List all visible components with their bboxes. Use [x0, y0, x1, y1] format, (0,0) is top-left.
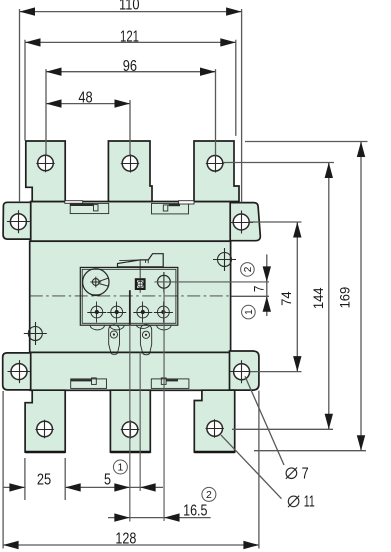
dimension 96 — [46, 58, 216, 155]
bottom left mounting ear — [3, 353, 31, 390]
body screw hole upper right (tilted cross) — [213, 248, 236, 271]
bottom terminal screw T1 — [35, 420, 53, 438]
svg-text:7: 7 — [251, 286, 266, 293]
dimension 121 — [25, 28, 236, 140]
top terminal screw T1 — [36, 154, 54, 172]
circled 1 bottom — [113, 460, 127, 474]
leader diameter 11 — [221, 435, 315, 511]
svg-text:7: 7 — [302, 465, 309, 482]
svg-text:11: 11 — [304, 494, 315, 511]
dimension 48 — [46, 89, 130, 155]
reference line 2 (through reset button) — [155, 281, 270, 283]
top terminal screw T3 — [206, 154, 224, 172]
svg-text:1: 1 — [117, 462, 123, 474]
dimension 74 — [250, 222, 302, 372]
top terminal T3 — [194, 141, 239, 202]
svg-text:2: 2 — [206, 489, 212, 501]
top terminal screw T2 — [121, 154, 139, 172]
dimension 25 — [3, 458, 130, 500]
bottom terminal screw T2 — [121, 420, 139, 438]
mounting leg left — [109, 325, 120, 355]
dimension 7 with positions 1 and 2 — [232, 254, 271, 316]
bottom terminal T1 — [25, 390, 65, 452]
svg-text:96: 96 — [123, 58, 137, 75]
dimension 144 — [223, 163, 334, 430]
bottom terminal thick bottom edges — [25, 451, 235, 454]
bottom terminal T3 — [194, 390, 234, 452]
test button square — [136, 279, 145, 289]
svg-text:74: 74 — [279, 291, 294, 306]
bottom left ear hole — [8, 360, 31, 383]
bottom right ear hole — [230, 360, 253, 383]
test lever — [118, 254, 164, 267]
leader diameter 7 — [245, 376, 309, 482]
dimension 169 — [245, 142, 368, 451]
svg-text:5: 5 — [104, 471, 111, 488]
svg-text:25: 25 — [37, 472, 51, 489]
reference line C (reset center, position 2) — [163, 292, 165, 521]
dimension 110 — [20, 0, 242, 202]
face row circle 3 — [133, 302, 152, 323]
bottom terminal screw T3 — [206, 419, 224, 437]
face row circle 1 — [87, 302, 106, 323]
top right mounting ear — [230, 203, 260, 241]
svg-text:128: 128 — [115, 530, 136, 547]
reference line A (position 1 divider) — [129, 290, 131, 325]
svg-text:110: 110 — [119, 0, 140, 14]
top terminal T1 — [26, 141, 65, 202]
test button inner circle — [137, 281, 143, 287]
top flange strip — [31, 202, 231, 242]
top left mounting ear — [3, 202, 31, 239]
flange tab between top T1 and T2 — [65, 201, 109, 214]
top left ear hole — [7, 210, 30, 233]
dial (setting knob) — [83, 269, 109, 295]
circled 1 right — [242, 305, 256, 319]
svg-text:169: 169 — [338, 287, 353, 309]
svg-text:1: 1 — [244, 309, 255, 315]
main body — [30, 241, 231, 352]
face row circle 2 — [107, 302, 126, 323]
flange tab between bottom T2 and T3 — [151, 378, 189, 389]
lever inner lines — [119, 260, 148, 263]
mounting leg right — [140, 324, 151, 354]
flange tab between top T2 and T3 — [152, 201, 195, 214]
bottom flange strip — [30, 352, 230, 390]
flange tab between bottom T1 and T2 — [71, 378, 107, 389]
dimension 5 — [104, 471, 163, 491]
circled 2 right — [241, 263, 255, 277]
face row circle 4 — [154, 302, 173, 323]
svg-text:48: 48 — [78, 89, 92, 106]
svg-text:144: 144 — [311, 287, 326, 309]
svg-text:121: 121 — [120, 28, 139, 45]
reset button circle — [158, 272, 171, 293]
bottom terminal T2 — [110, 390, 150, 452]
top terminal T2 — [108, 141, 152, 202]
control face inner rect — [82, 269, 176, 323]
svg-text:16.5: 16.5 — [183, 502, 207, 519]
top right ear hole — [230, 211, 254, 234]
body screw hole lower left — [24, 322, 47, 345]
circled 2 bottom — [202, 487, 216, 501]
reference line B (lever/test center) — [139, 260, 141, 293]
svg-text:2: 2 — [243, 266, 254, 272]
control face outer rect — [80, 267, 178, 325]
recess arches under face — [90, 325, 171, 330]
test button cross — [137, 280, 144, 287]
dimension 16.5 — [108, 502, 211, 522]
dimension 128 — [3, 391, 259, 550]
horizontal centerline (dash-dot) — [30, 295, 231, 297]
bottom right mounting ear — [230, 351, 259, 390]
